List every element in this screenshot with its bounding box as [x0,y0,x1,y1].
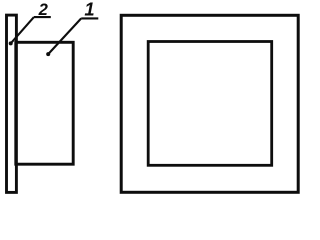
svg-text:2: 2 [38,0,49,19]
svg-text:1: 1 [84,0,94,20]
